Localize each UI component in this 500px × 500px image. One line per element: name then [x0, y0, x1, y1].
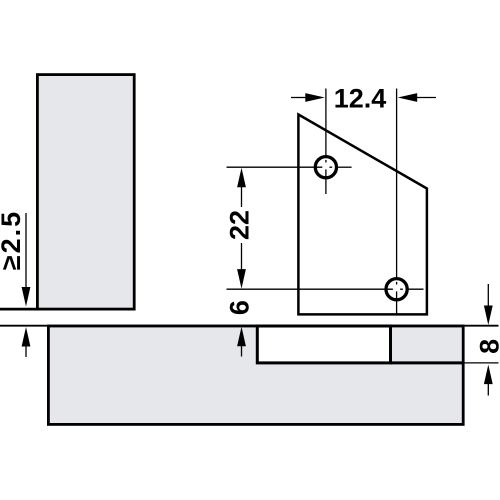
dim 12.4: left arrow [291, 97, 307, 99]
carcase reference long line [0, 325, 499, 327]
dim >=2.5: up arrow [22, 327, 31, 347]
dim 6: bottom arrow (pointing up at panel line) [237, 327, 246, 347]
dim 8: down arrow [487, 284, 489, 312]
lower hole crosshair vertical (12.4-dim extension) [396, 89, 398, 281]
dim 8: up arrow [484, 365, 493, 385]
door panel (upper gray rectangle) [37, 75, 134, 310]
dim 22: up arrow [237, 168, 246, 188]
upper hole crosshair horizontal (22-dim extension) [227, 166, 323, 168]
lower hole crosshair horizontal (6-dim extension) [227, 288, 393, 290]
svg-text:22: 22 [225, 210, 255, 240]
lower hole [386, 279, 407, 300]
dim 22: down arrow [241, 243, 243, 270]
dim >=2.5: down arrow [25, 213, 27, 288]
mounting plate pentagon [298, 115, 427, 315]
thin extension of notch bottom line to right (for 8 dim) [462, 362, 499, 364]
svg-text:6: 6 [224, 300, 254, 315]
upper hole [315, 157, 336, 178]
dim 12.4: right arrow [417, 97, 436, 99]
upper hole crosshair vertical (12.4-dim extension) [325, 89, 327, 159]
notch (white cutout) [257, 326, 390, 363]
svg-text:12.4: 12.4 [334, 84, 387, 114]
svg-text:≥2.5: ≥2.5 [0, 210, 26, 270]
bottom panel (gray) [48, 326, 463, 424]
door bottom edge extension line to left [0, 308, 37, 311]
notch bottom line continuation to panel right edge [390, 361, 464, 364]
svg-text:8: 8 [475, 339, 500, 354]
